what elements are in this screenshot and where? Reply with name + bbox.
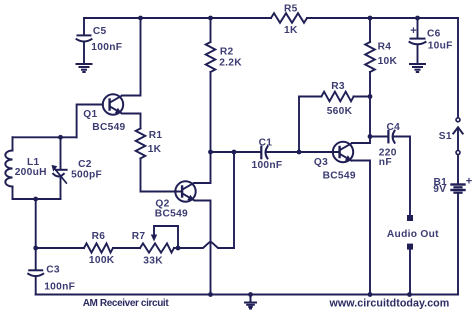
svg-text:C5: C5: [93, 26, 107, 37]
node R4 / R3: [368, 94, 373, 99]
svg-text:R1: R1: [149, 130, 163, 141]
wire Q2 collector up: [195, 182, 211, 184]
wire Q3 collector to C4 node: [352, 137, 370, 144]
capacitor C1: [261, 147, 299, 159]
svg-text:200uH: 200uH: [15, 167, 47, 178]
svg-text:nF: nF: [379, 157, 392, 168]
wire R1 bottom to Q2 base: [141, 158, 182, 191]
node R7 right / wiper: [176, 246, 181, 251]
svg-text:C2: C2: [78, 159, 92, 170]
resistor R4: [365, 18, 375, 97]
transistor Q2: [175, 181, 195, 201]
svg-text:500pF: 500pF: [71, 170, 102, 181]
wire Q1 base to tank top: [77, 105, 103, 138]
wire top rail right segment: [307, 17, 458, 19]
svg-text:100K: 100K: [89, 255, 115, 266]
svg-text:10uF: 10uF: [428, 41, 453, 52]
battery B1: [452, 185, 465, 193]
svg-text:+: +: [466, 175, 473, 187]
ground (below C5): [77, 64, 92, 72]
node R3 / Q3 base: [297, 150, 302, 155]
svg-text:BC549: BC549: [323, 171, 356, 182]
capacitor C4: [370, 131, 410, 215]
svg-text:Q1: Q1: [83, 109, 97, 120]
node top rail / R4: [368, 16, 373, 21]
svg-text:C4: C4: [387, 122, 401, 133]
node R2 / Q2 collector / C1: [208, 150, 213, 155]
wire tank bottom: [13, 198, 61, 200]
svg-text:C1: C1: [259, 138, 273, 149]
wire R2 node down to Q2 collector: [210, 152, 212, 183]
node Q3 collector / C4: [368, 134, 373, 139]
svg-text:S1: S1: [439, 131, 452, 142]
node top rail / R2: [208, 16, 213, 21]
node bottom rail / audio out: [407, 292, 412, 297]
node bottom rail / ground: [248, 292, 253, 297]
wire R6-R7: [113, 247, 140, 249]
wire R3 left leg down to Q3 base node: [298, 97, 300, 153]
svg-text:R2: R2: [220, 47, 234, 58]
svg-text:R6: R6: [92, 231, 106, 242]
node top rail / Q1 collector: [138, 16, 143, 21]
svg-text:R5: R5: [284, 3, 298, 14]
transistor Q3: [333, 142, 353, 162]
node tank top / C2: [58, 135, 63, 140]
capacitor C5: [77, 18, 92, 63]
svg-text:100nF: 100nF: [44, 282, 75, 293]
wire right rail upper (to S1): [457, 18, 459, 117]
resistor R2: [206, 18, 216, 152]
svg-text:R3: R3: [331, 81, 345, 92]
svg-text:C3: C3: [46, 265, 60, 276]
svg-text:10K: 10K: [378, 56, 398, 67]
svg-text:+: +: [410, 25, 417, 37]
svg-text:560K: 560K: [327, 106, 353, 117]
svg-text:Audio Out: Audio Out: [387, 229, 439, 240]
node tank tap / R6 / C3: [33, 246, 38, 251]
node bottom rail / Q3 emitter: [368, 292, 373, 297]
resistor R7 (preset): [140, 226, 178, 253]
wire up to C1 node: [233, 152, 235, 248]
node tank bottom tap: [33, 197, 38, 202]
resistor R6: [84, 243, 113, 252]
wire C1 node horizontal: [211, 151, 262, 153]
ground (bottom rail): [245, 295, 256, 309]
capacitor C3: [28, 248, 43, 295]
wire tank tap down to R6 node: [35, 199, 37, 248]
wire Q3 emitter down to ground rail: [352, 161, 370, 295]
audio out terminal squares: [407, 215, 413, 250]
wire R6 left: [36, 247, 84, 249]
svg-text:R4: R4: [378, 42, 392, 53]
svg-text:BC549: BC549: [92, 122, 125, 133]
wire Q1 emitter to R1: [122, 114, 141, 129]
capacitor C2 (variable): [52, 137, 67, 199]
svg-text:100nF: 100nF: [252, 160, 283, 171]
svg-text:9V: 9V: [433, 184, 446, 195]
wire Q3 base: [299, 151, 339, 153]
svg-text:1K: 1K: [284, 25, 298, 36]
node R7 feedback / C1 wire: [232, 150, 237, 155]
svg-text:www.circuitdtoday.com: www.circuitdtoday.com: [329, 298, 450, 310]
svg-text:33K: 33K: [143, 256, 163, 267]
wire Q1 collector to top rail: [122, 18, 141, 96]
wire S1 to battery: [457, 155, 459, 184]
svg-text:2.2K: 2.2K: [219, 58, 242, 69]
wire top rail left segment: [84, 17, 271, 19]
switch S1: [453, 118, 462, 155]
wire battery to bottom rail: [457, 194, 459, 295]
wire tank top: [13, 136, 77, 138]
wire R7 node right with hop over emitter line: [178, 242, 234, 248]
ground (below C6): [410, 64, 425, 72]
svg-text:1K: 1K: [148, 144, 162, 155]
svg-text:Q3: Q3: [314, 157, 328, 168]
svg-text:BC549: BC549: [155, 209, 188, 220]
svg-text:AM Receiver circuit: AM Receiver circuit: [83, 298, 170, 309]
svg-text:100nF: 100nF: [91, 42, 122, 53]
resistor R3: [299, 92, 370, 102]
wire R4 bottom to C4 node: [369, 97, 371, 137]
svg-text:C6: C6: [427, 29, 441, 40]
transistor Q1: [103, 94, 123, 114]
inductor L1: [5, 137, 12, 199]
capacitor C6: [410, 18, 426, 63]
node bottom rail / Q2 emitter: [208, 292, 213, 297]
wire audio out bottom terminal to rail: [409, 250, 411, 295]
resistor R5: [271, 13, 307, 23]
resistor R1: [136, 128, 146, 158]
wire Q2 emitter down to ground rail: [195, 201, 211, 295]
wire bottom rail: [36, 294, 458, 296]
node top rail / C6: [415, 16, 420, 21]
svg-text:R7: R7: [132, 231, 146, 242]
